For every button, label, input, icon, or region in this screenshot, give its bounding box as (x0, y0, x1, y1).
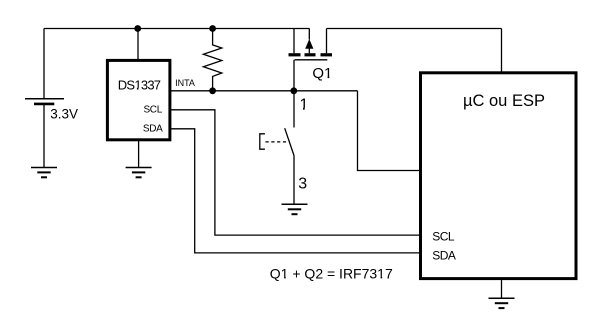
svg-text:SCL: SCL (143, 104, 162, 115)
svg-text:SDA: SDA (143, 123, 163, 134)
svg-text:Q1 + Q2 = IRF7317: Q1 + Q2 = IRF7317 (270, 265, 393, 281)
svg-text:µC ou ESP: µC ou ESP (463, 92, 545, 110)
svg-text:3: 3 (298, 175, 307, 192)
svg-text:SCL: SCL (432, 229, 455, 243)
svg-text:Q1: Q1 (312, 65, 332, 82)
svg-text:1: 1 (300, 97, 309, 114)
svg-text:INTA: INTA (175, 78, 195, 88)
svg-text:3.3V: 3.3V (50, 106, 78, 121)
svg-text:SDA: SDA (432, 248, 456, 262)
